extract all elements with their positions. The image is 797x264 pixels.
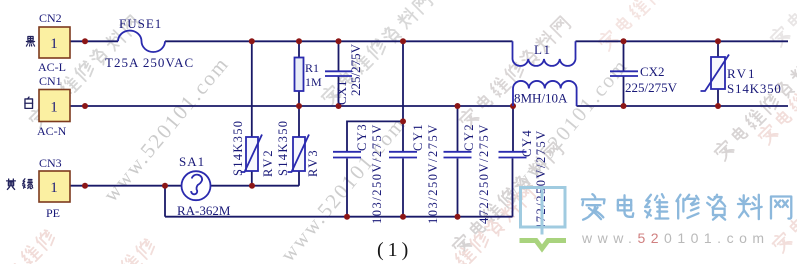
watermark cjk pink bottomleft2 xyxy=(88,237,157,264)
watermark cjk gray nearlogo xyxy=(450,141,565,256)
fuse FUSE1 xyxy=(105,16,194,70)
svg-text:103/250V/275V: 103/250V/275V xyxy=(370,123,384,224)
capacitor CX1 xyxy=(325,43,363,105)
connector CN1 xyxy=(25,74,70,138)
watermark cjk pink right xyxy=(756,76,797,145)
svg-text:1: 1 xyxy=(50,36,58,52)
svg-text:CX2: CX2 xyxy=(640,64,665,79)
capacitor CY1 xyxy=(389,123,440,224)
svg-text:CY1: CY1 xyxy=(411,123,425,151)
wire AC-L top rail xyxy=(71,40,789,42)
varistor RV3 xyxy=(231,120,320,177)
wire CX2 vertical xyxy=(623,41,625,106)
svg-text:CN3: CN3 xyxy=(39,156,62,170)
svg-text:S14K350: S14K350 xyxy=(231,120,245,176)
wire PE from CN3 to SA1 xyxy=(71,185,182,187)
capacitor CY4 xyxy=(499,129,549,230)
varistor RV1 xyxy=(701,55,782,97)
svg-text:472/250V/275V: 472/250V/275V xyxy=(477,123,491,224)
capacitor CY2 xyxy=(444,123,492,224)
svg-text:L1: L1 xyxy=(534,42,551,57)
svg-text:CY2: CY2 xyxy=(462,123,476,151)
svg-text:RV3: RV3 xyxy=(306,148,320,177)
node dots AC-L xyxy=(82,38,88,44)
svg-text:RV2: RV2 xyxy=(261,148,275,177)
node dots AC-N xyxy=(82,103,88,109)
connector CN3 xyxy=(7,156,70,220)
wire PE drop to bottom rail xyxy=(164,186,166,217)
watermark cjk gray topcenter xyxy=(319,0,434,107)
svg-text:225/275V: 225/275V xyxy=(625,80,678,95)
logo book green base xyxy=(520,241,567,249)
capacitor CX2 xyxy=(610,64,678,95)
svg-text:FUSE1: FUSE1 xyxy=(119,16,162,31)
logo book icon blue xyxy=(521,188,566,228)
svg-text:CY3: CY3 xyxy=(355,123,369,151)
inductor L1 bottom winding xyxy=(513,81,577,106)
resistor R1 xyxy=(295,58,323,92)
svg-text:T25A 250VAC: T25A 250VAC xyxy=(105,55,194,70)
svg-text:www.520101.com: www.520101.com xyxy=(581,230,770,246)
varistor RV2 xyxy=(241,120,291,177)
watermark cjk pink bottomleft xyxy=(0,228,57,264)
svg-text:S14K350: S14K350 xyxy=(276,120,290,176)
watermark cjk gray left xyxy=(27,14,142,129)
wire AC-N rail xyxy=(71,105,789,107)
svg-text:1M: 1M xyxy=(305,75,322,89)
svg-text:CY4: CY4 xyxy=(520,129,534,157)
wire RV1 vertical xyxy=(717,41,719,106)
wire CY2 vertical xyxy=(457,106,459,217)
svg-text:225/275V: 225/275V xyxy=(348,43,363,96)
svg-text:1: 1 xyxy=(50,180,58,196)
wire R1/RV3 vertical xyxy=(298,41,300,185)
logo cjk text xyxy=(582,194,791,220)
svg-text:CX1: CX1 xyxy=(334,80,349,105)
svg-text:SA1: SA1 xyxy=(179,154,205,169)
watermark cjk gray topright xyxy=(768,0,797,48)
svg-text:R1: R1 xyxy=(305,61,319,75)
svg-text:103/250V/275V: 103/250V/275V xyxy=(426,123,440,224)
logo book spine xyxy=(541,187,544,235)
wire SA1 to RV bottoms xyxy=(211,185,300,187)
wire CY3 top jog xyxy=(347,121,403,151)
svg-text:1: 1 xyxy=(50,100,58,116)
surge arrester SA1 xyxy=(177,154,231,218)
capacitor CY3 xyxy=(333,123,384,224)
watermark cjk pink bottomcenter xyxy=(422,185,537,264)
wire CY4 vertical xyxy=(512,106,515,217)
svg-text:AC-L: AC-L xyxy=(38,60,66,74)
svg-text:S14K350: S14K350 xyxy=(727,81,782,96)
watermark cjk gray right xyxy=(712,47,797,162)
connector CN2 xyxy=(26,11,70,74)
svg-text:RV1: RV1 xyxy=(727,66,757,81)
svg-text:AC-N: AC-N xyxy=(37,124,67,138)
node dots bottom rail xyxy=(344,214,350,220)
svg-text:RA-362M: RA-362M xyxy=(177,203,231,218)
watermark cjk pink rightedge xyxy=(770,184,797,253)
svg-text:PE: PE xyxy=(46,206,60,220)
svg-text:CN1: CN1 xyxy=(39,74,62,88)
watermark cjk pink top xyxy=(596,0,665,52)
wire CX1 vertical xyxy=(338,41,340,106)
wire RV2 vertical (AC-L to SA1 node) xyxy=(251,41,253,185)
wire CY3 bottom leg xyxy=(346,159,348,217)
svg-text:8MH/10A: 8MH/10A xyxy=(514,91,568,106)
inductor L1 top winding xyxy=(513,41,576,66)
watermark cjk gray midright xyxy=(457,15,572,130)
svg-text:CN2: CN2 xyxy=(39,11,62,25)
wire CY1 vertical xyxy=(402,41,404,216)
svg-text:(1): (1) xyxy=(377,239,412,261)
node dots PE xyxy=(82,183,88,189)
node dot jog xyxy=(400,118,406,124)
wire bottom PE rail xyxy=(165,216,513,218)
